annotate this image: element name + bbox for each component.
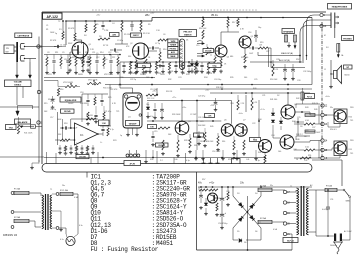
wire T2 inner vertical — [315, 190, 317, 232]
svg-text:2P-7B: 2P-7B — [130, 163, 136, 165]
wire speaker line 1 — [258, 52, 301, 56]
resistor R4b — [85, 20, 87, 32]
svg-text:R24 1K: R24 1K — [166, 91, 173, 93]
label PHONO — [168, 47, 178, 51]
svg-text:C12: C12 — [96, 57, 99, 59]
wire main board left frame — [41, 12, 43, 164]
wire bus link A — [100, 85, 111, 127]
wire T2 primary bottom — [309, 232, 333, 236]
resistor R23b — [102, 106, 106, 126]
svg-text:R41 100K: R41 100K — [24, 133, 33, 135]
resistor R32 — [232, 136, 236, 155]
svg-text:R44 56K: R44 56K — [198, 125, 206, 127]
wire main board top frame — [42, 11, 326, 13]
resistor R34 — [264, 153, 266, 164]
svg-text:R11: R11 — [55, 52, 58, 54]
svg-text:10μ: 10μ — [258, 27, 261, 29]
relay contact A — [285, 35, 288, 42]
svg-text:−0.6v: −0.6v — [238, 113, 243, 115]
svg-text:C24: C24 — [271, 135, 274, 137]
svg-text:330: 330 — [222, 141, 225, 143]
svg-text:R49 10: R49 10 — [312, 103, 318, 105]
transformer T2 power — [297, 186, 309, 236]
svg-text:R23 1.2K: R23 1.2K — [147, 98, 155, 100]
wire R5 to Q2 — [115, 32, 128, 45]
svg-text:C10: C10 — [77, 52, 80, 54]
label F2 3A — [14, 216, 20, 219]
svg-text:R1: R1 — [46, 29, 48, 31]
wire rail feed — [65, 21, 67, 45]
wire Q2 to selector — [149, 50, 158, 52]
wire diode to Q10 — [273, 130, 280, 138]
svg-text:R12: R12 — [70, 52, 73, 54]
capacitor C7 — [249, 46, 258, 55]
svg-text:R53 10K: R53 10K — [270, 79, 278, 81]
svg-text:VOLUME: VOLUME — [14, 82, 23, 84]
svg-text:50KBx2: 50KBx2 — [14, 85, 21, 87]
resistor R7 — [140, 21, 142, 32]
diode D4 bridge — [233, 196, 261, 228]
capacitor C10 — [60, 126, 75, 129]
resistor R12 — [202, 30, 204, 39]
svg-text:100P: 100P — [316, 132, 321, 134]
connector PU source box — [4, 45, 16, 54]
svg-text:R15: R15 — [115, 52, 118, 54]
resistor R6b — [94, 20, 96, 33]
label BALANCE box — [15, 119, 31, 124]
svg-text:VR2 50KB: VR2 50KB — [104, 74, 114, 76]
svg-text:C21 47μ: C21 47μ — [104, 111, 111, 113]
wire comb bus — [120, 61, 214, 63]
svg-text:VR3 500KB: VR3 500KB — [63, 82, 74, 84]
svg-text:R54: R54 — [349, 117, 352, 119]
wire bridge bottom — [233, 228, 261, 240]
wire bottom bus — [44, 157, 265, 159]
label parts list — [91, 174, 191, 253]
svg-text:+27v: +27v — [172, 97, 176, 99]
jack input L — [20, 44, 40, 50]
resistor R57 — [199, 187, 208, 191]
resistor R50 — [272, 60, 279, 76]
node op-amp pins — [74, 127, 99, 141]
svg-text:R49: R49 — [314, 109, 317, 111]
svg-text:47K: 47K — [112, 33, 116, 36]
resistor R9 — [145, 59, 147, 68]
svg-text:R57 10: R57 10 — [228, 159, 234, 161]
label AUX.SP(B) — [279, 59, 290, 62]
svg-text:D7: D7 — [210, 195, 212, 197]
svg-text:C40: C40 — [174, 159, 177, 161]
svg-text:R34: R34 — [204, 77, 207, 79]
ground R17 — [243, 65, 247, 69]
svg-text:R39: R39 — [231, 103, 234, 105]
svg-text:R18: R18 — [64, 123, 67, 125]
ground pill left — [30, 160, 39, 170]
node pill tab box — [232, 159, 241, 165]
svg-text:R16: R16 — [60, 89, 63, 91]
resistor selector feed — [158, 39, 168, 41]
wire jack curve 2 — [303, 20, 329, 63]
wire rail drop right — [311, 18, 313, 85]
label PHONES box — [342, 36, 354, 41]
node T1 out top — [52, 193, 59, 196]
node mains terminal B — [11, 211, 14, 214]
label BASS box — [60, 97, 81, 102]
svg-text:C50 4700μ: C50 4700μ — [218, 223, 227, 225]
node terminal 12 — [321, 104, 328, 108]
svg-text:C5: C5 — [96, 53, 98, 55]
svg-text:F3 2A: F3 2A — [326, 185, 332, 188]
svg-text:R5: R5 — [96, 24, 98, 26]
capacitor C3 — [130, 21, 133, 31]
svg-text:1μ: 1μ — [120, 135, 122, 137]
capacitor C5 — [147, 46, 159, 49]
svg-text:PU: PU — [6, 48, 9, 50]
wire +28V rail left — [66, 18, 152, 22]
capacitor C19b — [51, 96, 55, 109]
svg-text:R16: R16 — [104, 59, 107, 61]
wire driver out bottom — [294, 141, 321, 143]
wire mid bus — [147, 100, 232, 102]
svg-text:100K: 100K — [57, 119, 62, 121]
capacitor decoupling comb — [122, 62, 216, 74]
svg-text:AUX.SP(B): AUX.SP(B) — [279, 59, 290, 62]
node terminal 2 — [37, 90, 43, 94]
svg-text:R28 1K: R28 1K — [184, 140, 191, 142]
node connector pins — [126, 150, 140, 157]
resistor R60 — [226, 186, 230, 207]
svg-text:560: 560 — [244, 77, 247, 79]
svg-text:1000P: 1000P — [68, 103, 74, 105]
transistor Q9 2SC1624 — [257, 139, 272, 153]
node T1 out bottom — [52, 227, 59, 230]
potentiometer VR2 treble — [87, 80, 101, 85]
wire lower mid bus — [147, 120, 221, 122]
svg-text:VR1: VR1 — [48, 74, 52, 76]
svg-text:C7 1μ: C7 1μ — [155, 43, 160, 45]
node balance pin box — [31, 125, 36, 128]
label TREBLE box — [61, 109, 75, 113]
svg-text:0.5Ω: 0.5Ω — [305, 120, 309, 122]
resistor R29 — [231, 95, 245, 110]
svg-text:223: 223 — [158, 73, 161, 75]
svg-text:1.5K: 1.5K — [102, 123, 107, 125]
svg-text:222: 222 — [112, 57, 115, 59]
wire left out — [0, 156, 44, 158]
svg-text:C19 1μ: C19 1μ — [50, 109, 56, 111]
svg-text:50/60Hz: 50/60Hz — [330, 245, 337, 247]
svg-text:0.047μ: 0.047μ — [322, 209, 328, 211]
resistor R16b — [206, 44, 208, 55]
label 33v — [240, 182, 245, 185]
svg-text:C22: C22 — [252, 123, 255, 125]
capacitor C12 — [153, 103, 157, 120]
svg-text:10: 10 — [318, 158, 320, 160]
svg-text:104: 104 — [182, 73, 185, 75]
svg-text:C19: C19 — [146, 71, 149, 73]
wire tone mid bus — [44, 77, 155, 79]
transistor Q13 2SD735A — [334, 141, 352, 156]
svg-text:R14: R14 — [100, 52, 103, 54]
svg-text:R8: R8 — [88, 57, 90, 59]
wire Q4 collector — [221, 28, 239, 46]
wire balance arrow — [16, 109, 19, 116]
svg-text:C24 10μ: C24 10μ — [214, 79, 221, 81]
svg-text:10: 10 — [296, 159, 298, 161]
capacitor C14 — [214, 98, 218, 112]
wire input to Q1 — [40, 46, 60, 48]
svg-text:TA7200P: TA7200P — [129, 122, 138, 125]
speaker SP 8ohm — [330, 60, 341, 85]
svg-text:BALANCE: BALANCE — [18, 121, 28, 124]
label VOLUME box — [5, 80, 32, 87]
svg-text:R56: R56 — [150, 159, 153, 161]
svg-text:R25: R25 — [108, 97, 111, 99]
svg-text:50KB: 50KB — [78, 74, 83, 76]
svg-text:2SC945: 2SC945 — [64, 110, 71, 113]
capacitor C50 electrolytic — [220, 210, 227, 230]
svg-text:C15: C15 — [196, 45, 199, 47]
capacitor C49 electrolytic — [220, 187, 227, 210]
wire chassis dash-dot boundary — [321, 22, 323, 160]
transistor Q5 2SC2240 — [239, 36, 254, 48]
svg-text:T1: T1 — [50, 189, 52, 191]
capacitor C3b — [101, 21, 104, 30]
svg-text:F3 1.5A: F3 1.5A — [60, 189, 68, 192]
label VR box — [6, 125, 17, 130]
resistor R31 — [251, 93, 258, 110]
svg-text:R32: R32 — [168, 79, 171, 81]
ground input shell B — [29, 59, 32, 79]
wire bridge top — [232, 186, 262, 196]
capacitor C30 — [283, 64, 287, 81]
wire IC bottom pins — [126, 128, 139, 137]
capacitor C31 — [291, 64, 295, 81]
label 40v — [198, 182, 203, 185]
svg-text:C42: C42 — [304, 160, 307, 162]
svg-text:C10: C10 — [64, 59, 67, 61]
resistor R1 — [59, 21, 64, 40]
svg-text:R2 47K: R2 47K — [50, 40, 57, 42]
svg-text:R55: R55 — [349, 149, 352, 151]
svg-text:TAPE: TAPE — [170, 40, 176, 43]
label box Q3 type — [156, 143, 169, 147]
label component values scatter — [44, 13, 354, 248]
jack input R — [20, 56, 36, 62]
svg-text:+14v: +14v — [205, 90, 209, 92]
svg-text:D1: D1 — [186, 40, 188, 42]
wire op-amp left vert A — [57, 112, 59, 145]
wire SW1 down — [342, 198, 350, 241]
svg-text:C16: C16 — [248, 32, 251, 34]
node terminal 16 — [321, 156, 328, 160]
svg-text:8ohm: 8ohm — [345, 75, 350, 77]
svg-text:0.1μ: 0.1μ — [256, 160, 260, 162]
ground R16 — [219, 70, 223, 74]
wire emitter chain — [297, 118, 299, 136]
svg-text:CARTRIDGE: CARTRIDGE — [17, 34, 30, 37]
wire F2 out — [258, 221, 285, 223]
fuse F2 primary — [14, 219, 29, 222]
label box fusing value — [305, 94, 315, 99]
resistor R2 — [74, 21, 76, 41]
transistor Q7 2SA970 — [221, 120, 233, 137]
svg-text:HEADPHONES: HEADPHONES — [332, 6, 348, 9]
svg-text:10μ: 10μ — [146, 104, 149, 106]
svg-text:D6: D6 — [255, 231, 257, 233]
svg-text:470: 470 — [207, 53, 210, 55]
svg-text:C14: C14 — [118, 85, 121, 87]
capacitor C11 — [101, 126, 104, 137]
svg-text:C4: C4 — [112, 23, 114, 25]
fuse F2 5A — [258, 217, 272, 224]
resistor R20 — [55, 139, 75, 141]
svg-text:C28: C28 — [276, 59, 279, 61]
resistor R15 — [214, 55, 216, 66]
svg-text:680: 680 — [230, 56, 233, 58]
wire speaker line 3 — [271, 48, 305, 68]
wire left mid out — [0, 106, 39, 108]
svg-text:R17 56K: R17 56K — [48, 99, 56, 101]
svg-text:0.5μ: 0.5μ — [150, 116, 154, 118]
svg-text:R4: R4 — [84, 35, 86, 37]
node terminal 1 — [37, 45, 43, 49]
svg-text:F2 3A: F2 3A — [14, 216, 20, 219]
label box R value — [148, 125, 157, 129]
svg-text:R20 150: R20 150 — [241, 57, 248, 59]
wire diff feeds — [232, 95, 260, 140]
capacitor C6 electrolytic — [254, 30, 258, 42]
svg-text:R10: R10 — [163, 49, 166, 51]
svg-text:C25: C25 — [254, 79, 257, 81]
node rail dots — [62, 20, 111, 22]
wire T1 tap mid — [14, 211, 41, 213]
transistor Q12 2SD735A — [334, 109, 352, 124]
node terminal 13 — [321, 122, 328, 126]
svg-text:R35: R35 — [230, 77, 233, 79]
svg-text:330: 330 — [128, 56, 131, 58]
svg-text:C1: C1 — [46, 25, 48, 27]
wire drops to pill — [153, 150, 265, 164]
svg-text:250KB: 250KB — [140, 74, 146, 76]
label R100K — [103, 88, 113, 90]
svg-text:F2 5A: F2 5A — [260, 217, 266, 220]
svg-text:R7 1K: R7 1K — [103, 45, 109, 47]
label box Q4 type — [203, 49, 214, 53]
svg-text:R3 47K: R3 47K — [68, 28, 75, 30]
wire IC top feed — [120, 88, 133, 93]
ground C48 — [199, 206, 203, 210]
jack pre-out — [197, 41, 205, 45]
op-amp IC1a — [75, 123, 99, 145]
svg-text:R26 100K: R26 100K — [172, 114, 181, 116]
capacitor C15b — [209, 47, 212, 56]
capacitor C20b — [86, 94, 89, 106]
label MAIN.SP(A) — [281, 52, 293, 55]
label box comb value B — [208, 63, 221, 67]
svg-text:C11: C11 — [92, 52, 95, 54]
capacitor C2 — [86, 56, 89, 67]
svg-text:F1 5A: F1 5A — [260, 185, 266, 188]
svg-text:C51: C51 — [330, 199, 333, 201]
svg-text:AC 100V: AC 100V — [344, 230, 352, 233]
ground R4 — [81, 69, 85, 73]
wire speaker vertical pair — [268, 48, 270, 67]
diode D9 — [146, 102, 150, 119]
wire mid drop — [196, 101, 198, 151]
capacitor C22b — [94, 106, 98, 124]
wire pill to right — [312, 160, 342, 186]
resistor R21 feedback — [86, 115, 96, 120]
diode D3 bridge — [233, 196, 261, 228]
wire bus link B — [119, 62, 121, 88]
svg-text:R38 33K: R38 33K — [216, 87, 224, 89]
wire T1 tap top — [29, 193, 41, 196]
svg-text:2SD: 2SD — [350, 107, 354, 109]
potentiometer VR3 balance — [17, 117, 34, 135]
svg-text:C32 100μ: C32 100μ — [303, 71, 311, 73]
svg-text:2.2M: 2.2M — [104, 30, 109, 32]
svg-text:C13 10μ: C13 10μ — [150, 89, 157, 91]
wire volume drops — [17, 87, 23, 106]
relay contact B — [294, 35, 297, 42]
ground R59 — [215, 213, 219, 217]
wire Q13 emitter — [326, 156, 340, 159]
node terminal 17 — [283, 190, 290, 194]
svg-text:R18: R18 — [217, 63, 220, 65]
resistor R28 — [188, 134, 192, 154]
svg-text:AF-122: AF-122 — [47, 15, 58, 19]
wire PS left frame — [196, 172, 198, 250]
resistor R8 — [135, 58, 137, 70]
wire collector join — [339, 131, 341, 141]
node ground bus pill — [42, 164, 312, 173]
wire left vertical bus — [38, 37, 40, 163]
resistor R14 — [237, 18, 239, 27]
svg-text:R30: R30 — [120, 77, 123, 79]
svg-text:C26 100P: C26 100P — [198, 117, 207, 119]
diode D8 snubber — [239, 239, 242, 243]
label box Q9 type — [250, 138, 261, 142]
svg-text:2SC945: 2SC945 — [79, 156, 86, 159]
potentiometer VR1 bass — [44, 81, 80, 88]
label AF-122 title box — [43, 13, 63, 19]
svg-text:R28 100K: R28 100K — [128, 73, 137, 75]
connector phono input shell — [16, 42, 18, 62]
wire balance loop — [18, 106, 33, 110]
transistor Q2 2SK117 — [130, 43, 149, 59]
label box comb value A — [138, 63, 151, 67]
wire driver collector top — [296, 104, 320, 108]
svg-text:C20 47μ: C20 47μ — [198, 96, 205, 98]
resistor R22 — [107, 125, 109, 136]
svg-text:C2 10P: C2 10P — [190, 114, 197, 116]
svg-text:33v: 33v — [330, 107, 333, 109]
wire T2 secondary taps — [295, 190, 297, 192]
svg-text:R21 33K: R21 33K — [86, 115, 94, 117]
label ELP-4d — [283, 238, 298, 243]
svg-text:C23: C23 — [200, 121, 203, 123]
wire +35.4V rail right — [152, 17, 312, 19]
wire to terminal 13 — [294, 121, 304, 123]
svg-text:R33: R33 — [186, 74, 189, 76]
svg-text:24v: 24v — [62, 185, 65, 187]
svg-text:330P: 330P — [68, 43, 73, 45]
svg-text:D3: D3 — [237, 193, 239, 195]
svg-text:J1: J1 — [324, 69, 326, 71]
svg-text:C27: C27 — [312, 127, 315, 129]
resistor R10 — [158, 48, 162, 68]
